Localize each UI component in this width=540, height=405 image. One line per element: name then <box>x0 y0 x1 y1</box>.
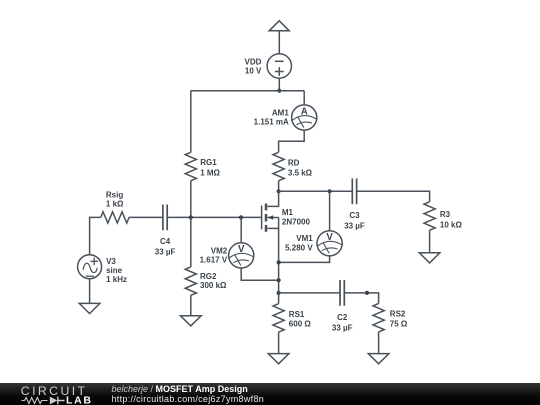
wire rail down to RG1 <box>190 91 192 153</box>
voltmeter VM1 <box>317 231 342 256</box>
svg-text:RS2: RS2 <box>390 310 406 319</box>
svg-text:sine: sine <box>106 266 123 275</box>
wire Rsig to C4 <box>129 216 163 218</box>
label VM1 value <box>285 234 313 252</box>
resistor Rsig <box>101 212 129 223</box>
wire rail to AM1 <box>303 91 305 105</box>
resistor RS1 <box>273 304 284 332</box>
svg-text:RG1: RG1 <box>200 158 217 167</box>
svg-text:VM1: VM1 <box>296 234 313 243</box>
wire C3 to R3 <box>357 191 430 202</box>
svg-text:VDD: VDD <box>245 57 262 66</box>
CircuitLab logo <box>0 383 110 405</box>
label VM2 value <box>200 246 228 264</box>
svg-text:1 kHz: 1 kHz <box>106 275 127 284</box>
wire C2 to RS2 <box>344 293 378 304</box>
svg-text:1.151 mA: 1.151 mA <box>254 118 289 127</box>
svg-text:RD: RD <box>288 158 300 167</box>
node drain junction <box>277 189 281 193</box>
svg-text:Rsig: Rsig <box>106 191 123 200</box>
wire V3 to ground <box>89 279 91 304</box>
svg-text:C2: C2 <box>337 313 348 322</box>
svg-text:V3: V3 <box>106 257 116 266</box>
svg-text:33 µF: 33 µF <box>332 323 353 332</box>
svg-text:VM2: VM2 <box>211 246 228 255</box>
resistor R3 <box>424 202 435 230</box>
node gate junction <box>189 215 193 219</box>
ammeter AM1 <box>292 105 317 130</box>
label RD value <box>288 158 313 177</box>
label V3 value <box>106 257 127 284</box>
wire RG1 to gate node <box>190 181 192 218</box>
label RS1 value <box>289 310 312 329</box>
label R3 value <box>440 210 463 229</box>
svg-text:3.5 kΩ: 3.5 kΩ <box>288 169 313 178</box>
svg-text:AM1: AM1 <box>272 108 289 117</box>
wire AM1 to RD <box>279 130 305 152</box>
transistor M1 <box>262 191 279 232</box>
wire RS2 to ground <box>378 332 380 354</box>
wire top rail <box>191 90 304 92</box>
svg-text:RG2: RG2 <box>200 272 217 281</box>
node C2-RS2 junction <box>365 291 369 295</box>
voltage source VDD <box>267 54 291 78</box>
wire gate node to RG2 <box>190 217 192 267</box>
wire VM2 bottom <box>241 268 278 280</box>
wire gate row <box>167 216 261 218</box>
svg-text:5.280 V: 5.280 V <box>285 243 313 252</box>
svg-text:10 V: 10 V <box>245 66 262 75</box>
resistor RG1 <box>185 152 196 180</box>
svg-text:1 MΩ: 1 MΩ <box>200 168 220 177</box>
label RS2 value <box>390 310 408 329</box>
svg-text:1 kΩ: 1 kΩ <box>106 200 124 209</box>
capacitor C2 <box>340 280 344 306</box>
svg-text:33 µF: 33 µF <box>344 221 365 230</box>
footer bar <box>0 383 540 405</box>
wire RD to drain node <box>278 181 280 192</box>
capacitor C3 <box>352 178 356 204</box>
voltage source V3 <box>78 255 102 279</box>
label VDD value <box>245 57 263 75</box>
wire VM2 top <box>240 217 242 243</box>
ground V3 <box>79 303 100 313</box>
node VM2 bottom junction <box>277 278 281 282</box>
node VM2 top junction <box>239 215 243 219</box>
svg-text:LAB: LAB <box>66 395 93 405</box>
resistor RD <box>273 152 284 180</box>
wire input corner <box>90 217 101 254</box>
wire RS1 to ground <box>278 332 280 354</box>
wire RG2 to ground <box>190 295 192 316</box>
capacitor C4 <box>163 205 167 231</box>
label C2 value <box>332 313 353 332</box>
svg-text:33 µF: 33 µF <box>155 248 176 257</box>
svg-text:75 Ω: 75 Ω <box>390 319 408 328</box>
wire VDD to rail <box>278 78 280 91</box>
wire drain row to C3 <box>279 190 353 192</box>
wire source column <box>278 218 280 304</box>
VDD power arrow <box>269 21 289 54</box>
label AM1 value <box>254 108 290 126</box>
label M1 value <box>282 208 311 226</box>
wire source row to C2 <box>279 292 340 294</box>
label RG1 value <box>200 158 220 177</box>
node VM1 bottom junction <box>277 260 281 264</box>
wire R3 to ground <box>429 230 431 253</box>
label RG2 value <box>200 272 227 290</box>
svg-text:RS1: RS1 <box>289 310 305 319</box>
label Rsig value <box>106 191 124 209</box>
resistor RG2 <box>185 267 196 295</box>
svg-text:C4: C4 <box>160 237 171 246</box>
svg-text:300 kΩ: 300 kΩ <box>200 281 227 290</box>
ground R3 <box>419 253 440 263</box>
node VM1 top junction <box>328 189 332 193</box>
resistor RS2 <box>373 304 384 332</box>
voltmeter VM2 <box>229 243 254 268</box>
ground RS2 <box>368 354 389 364</box>
node top rail junction <box>277 89 281 93</box>
svg-text:10 kΩ: 10 kΩ <box>440 220 463 229</box>
label C4 value <box>155 237 176 256</box>
svg-text:1.617 V: 1.617 V <box>200 256 228 265</box>
svg-text:R3: R3 <box>440 210 451 219</box>
svg-text:C3: C3 <box>349 211 360 220</box>
footer title text <box>112 384 265 404</box>
node source junction <box>277 291 281 295</box>
svg-text:2N7000: 2N7000 <box>282 217 311 226</box>
ground RS1 <box>268 354 289 364</box>
svg-text:M1: M1 <box>282 208 294 217</box>
wire VM1 top <box>329 191 331 230</box>
ground RG2 <box>181 316 202 326</box>
wire VM1 bottom <box>279 256 330 263</box>
svg-text:600 Ω: 600 Ω <box>289 320 312 329</box>
label C3 value <box>344 211 365 230</box>
